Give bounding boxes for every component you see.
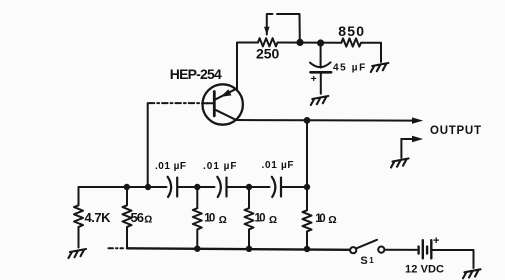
svg-text:.01 µF: .01 µF — [262, 160, 294, 171]
svg-text:4.7K: 4.7K — [85, 210, 112, 225]
svg-text:OUTPUT: OUTPUT — [430, 125, 481, 137]
svg-text:HEP-254: HEP-254 — [170, 66, 222, 82]
svg-text:56: 56 — [131, 210, 145, 225]
svg-text:Ω: Ω — [269, 215, 277, 226]
svg-text:850: 850 — [338, 23, 364, 39]
svg-text:.01 µF: .01 µF — [155, 161, 186, 172]
svg-text:Ω: Ω — [328, 214, 336, 226]
svg-text:.01 µF: .01 µF — [203, 161, 237, 172]
svg-text:Ω: Ω — [219, 215, 227, 226]
svg-text:10: 10 — [315, 213, 325, 225]
svg-text:250: 250 — [256, 45, 280, 61]
svg-text:10: 10 — [204, 213, 215, 225]
svg-text:1: 1 — [369, 256, 374, 265]
svg-text:Ω: Ω — [144, 215, 152, 226]
svg-text:+: + — [433, 235, 439, 247]
svg-text:S: S — [360, 255, 367, 267]
svg-text:45 µF: 45 µF — [333, 62, 365, 73]
svg-text:+: + — [311, 73, 317, 85]
svg-text:10: 10 — [255, 213, 266, 225]
svg-text:12 VDC: 12 VDC — [405, 263, 444, 275]
